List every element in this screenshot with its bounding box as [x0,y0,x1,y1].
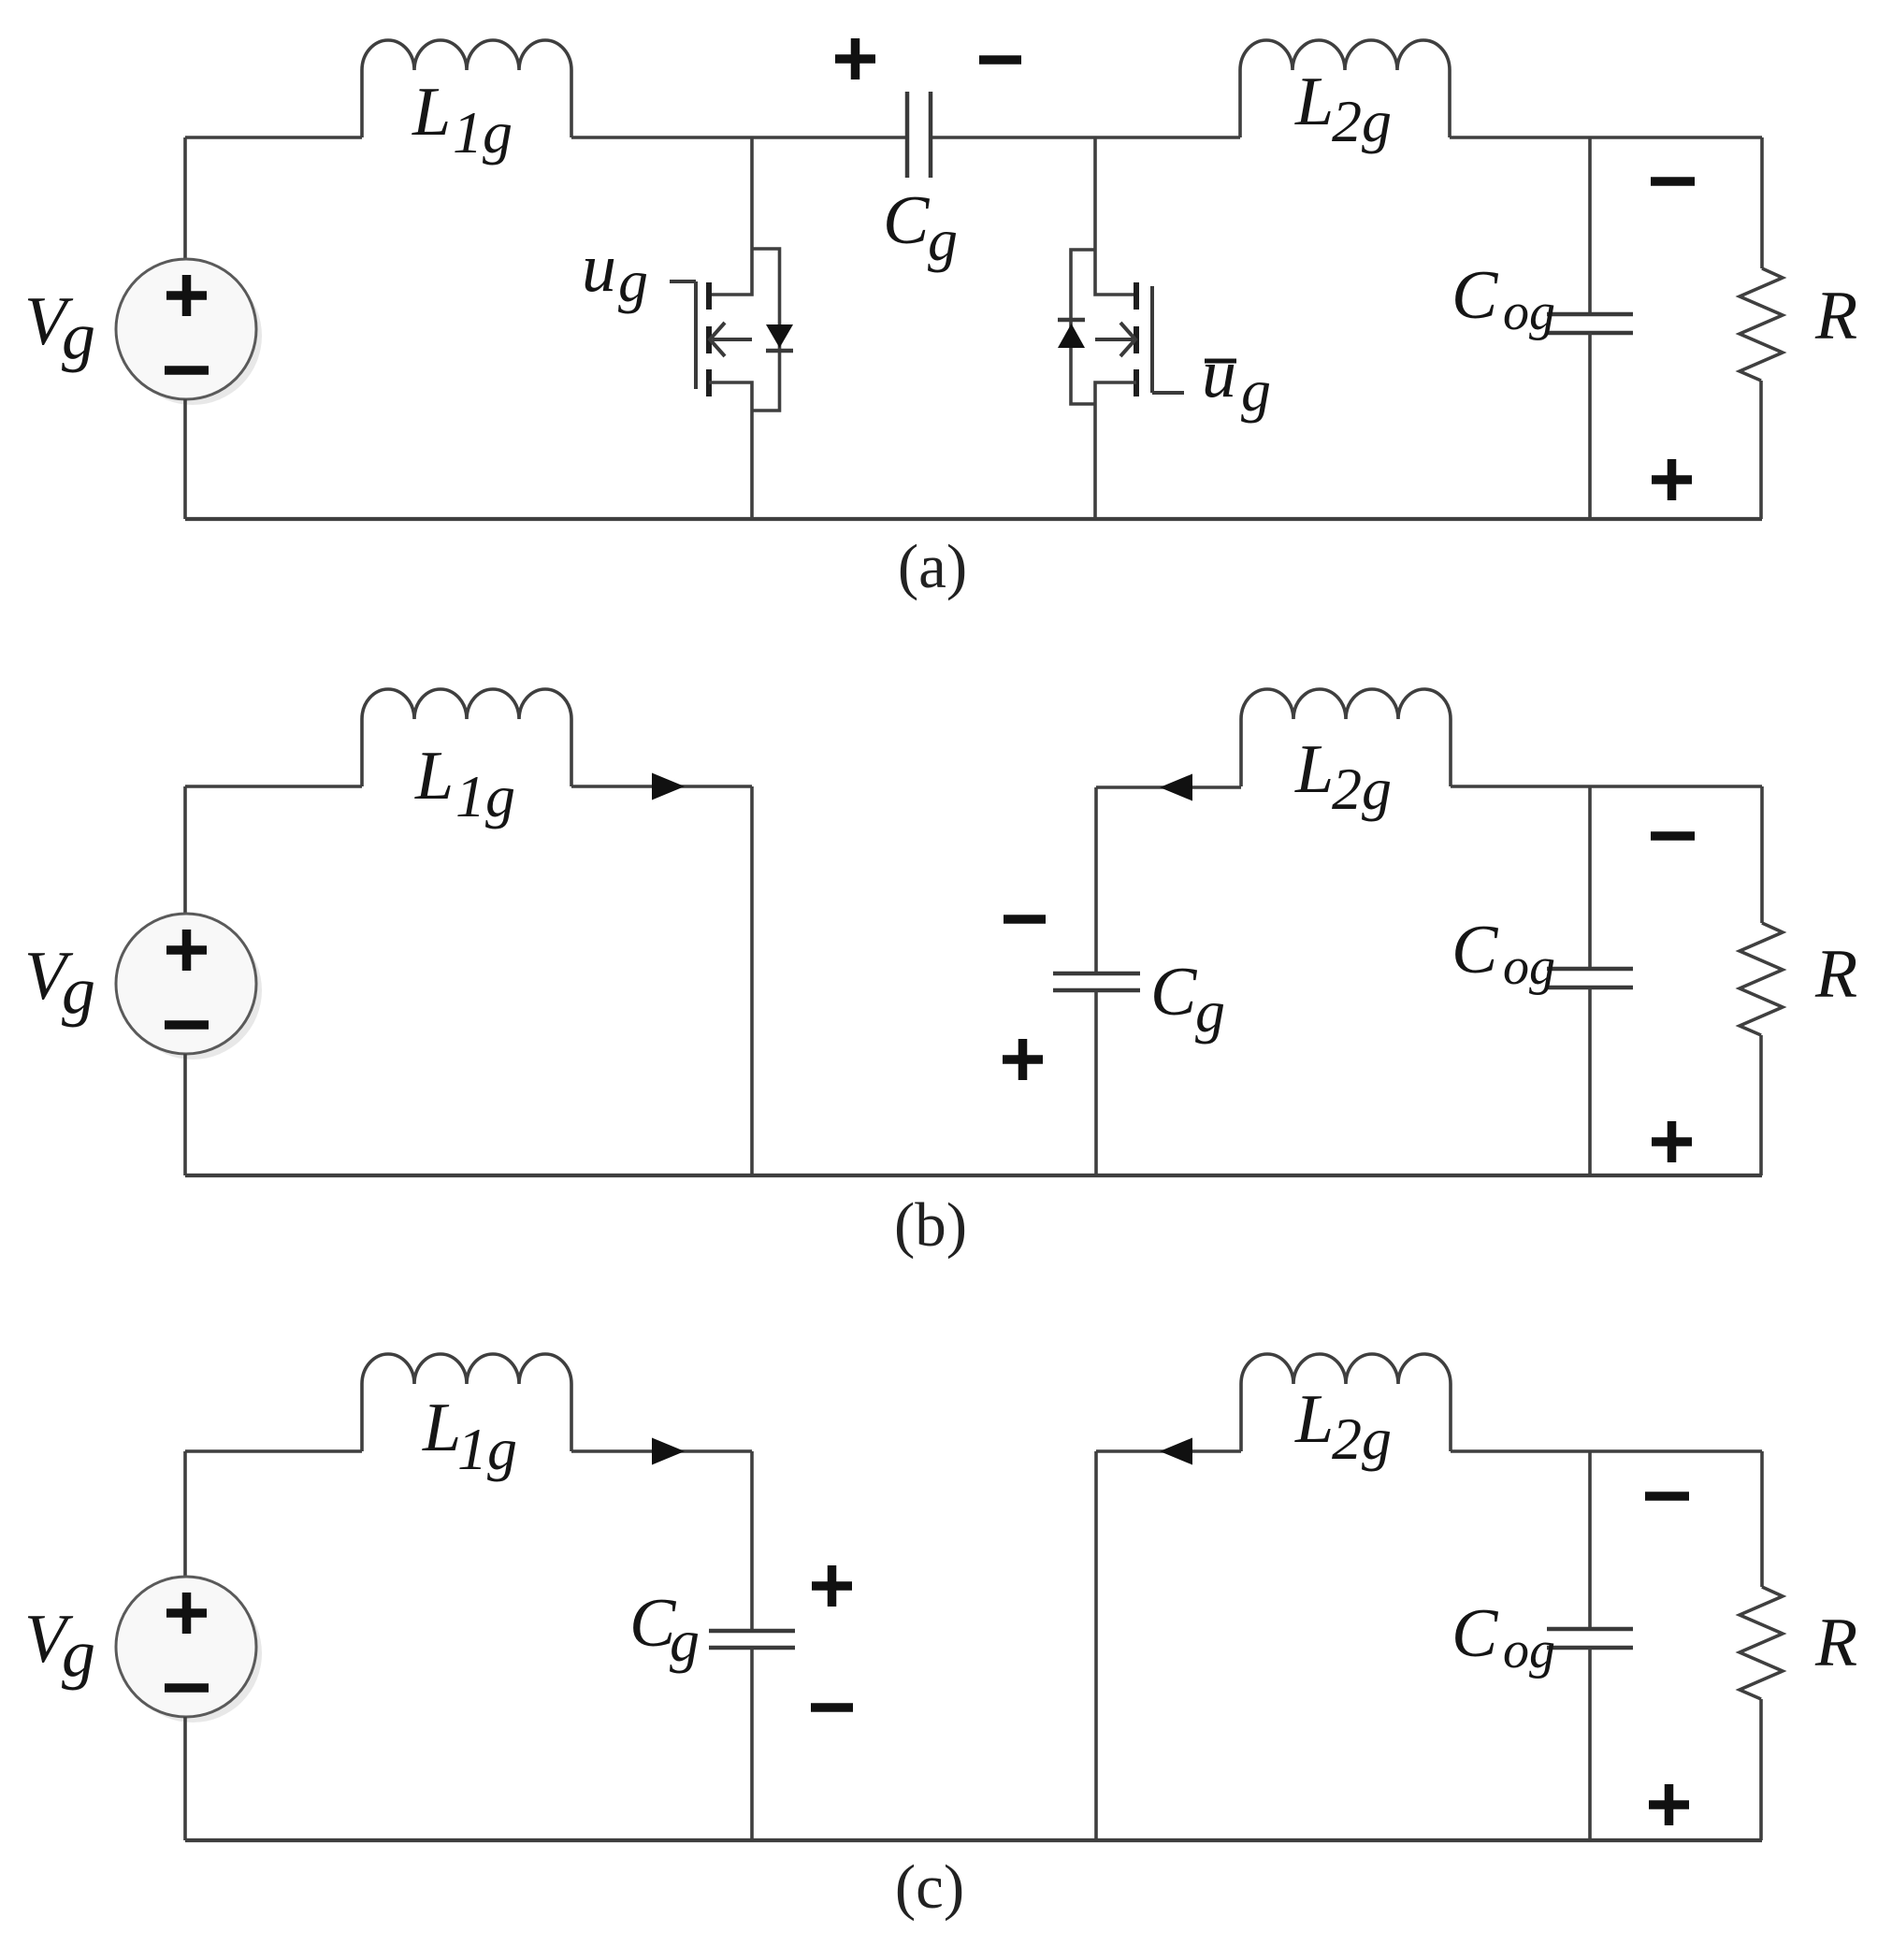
wire: left branch upper [183,1451,187,1578]
gate lead Q1 [670,280,696,283]
wire: Cog lower [1588,987,1592,1175]
wire: R lower [1759,1035,1763,1175]
inductor L2g [1240,40,1450,137]
label L2g [1294,1381,1392,1472]
wire: Cg upper [1094,787,1098,973]
wire: left branch lower [183,399,187,519]
svg-text:L: L [412,74,451,151]
inductor L2g [1241,689,1451,786]
label L2g [1294,64,1392,154]
channel bars Q2 [1134,282,1139,310]
svg-text:C: C [883,182,931,259]
wire: top rail, Cg to L2g [932,136,1240,139]
capacitor Cog [1547,967,1633,972]
inductor L1g [362,40,571,137]
wire: top rail, L1g to Cg [571,136,905,139]
current arrow i2 [1160,1438,1192,1465]
wire: source lead Q2 [1095,382,1136,519]
svg-text:g: g [1195,978,1225,1045]
transistor Q2 (MOSFET ug-bar) [1058,137,1271,519]
channel bars Q1 [706,282,712,310]
svg-text:L: L [1294,731,1334,808]
capacitor Cg [907,92,931,178]
label ug-bar [1202,336,1271,424]
minus label of Cg [811,1703,853,1712]
wire: Cog upper [1588,137,1592,314]
svg-text:g: g [62,1616,95,1691]
wire: L2g branch top horizontal with arrow [1096,1449,1241,1453]
label Vg [24,283,95,373]
plus label of output [1652,459,1692,500]
plus label of Cg [812,1565,852,1607]
svg-text:g: g [670,1607,700,1674]
label L1g [412,74,513,166]
svg-text:g: g [928,207,958,273]
svg-text:1g: 1g [453,99,513,166]
plus label of output [1649,1784,1689,1825]
minus label of Cg [979,55,1021,65]
wire: top rail with current arrow [571,1449,752,1453]
body diode D2 [1058,320,1085,348]
plus label of output [1652,1121,1692,1162]
wire: left branch upper [183,137,187,260]
substrate line with arrow Q1 [713,338,752,341]
svg-text:R: R [1814,1605,1857,1681]
capacitor Cog branch [1451,786,1633,1175]
wire: R upper [1760,1451,1764,1587]
capacitor Cog branch [1451,137,1633,519]
wire: Cog upper [1588,786,1592,969]
gate bar Q1 [694,281,698,389]
transistor Q1 (MOSFET ug) [582,137,793,519]
svg-text:C: C [1150,954,1198,1030]
svg-text:L: L [1294,1381,1334,1458]
wire: Cog upper [1588,1451,1592,1629]
wire: bottom rail [185,1838,1762,1842]
inductor L1g [362,689,571,786]
body diode D1 [766,324,793,351]
minus label of output [1651,831,1695,841]
wire: Cog lower [1588,333,1592,519]
wire: Cg lower [1094,990,1098,1175]
voltage source Vg [116,259,262,405]
resistor R [1740,1451,1857,1840]
svg-text:2g: 2g [1332,756,1392,822]
svg-text:(b): (b) [894,1190,967,1260]
voltage source Vg [116,914,262,1059]
svg-text:L: L [414,738,454,814]
wire: R upper [1760,786,1764,923]
gate bar Q2 [1150,286,1154,393]
wire: top rail left segment [185,1449,362,1453]
svg-text:2g: 2g [1332,1405,1392,1472]
plus label of Cg [1003,1039,1043,1080]
svg-text:(a): (a) [898,532,967,601]
svg-text:1g: 1g [457,1416,517,1482]
capacitor Cg branch [1003,774,1241,1176]
resistor R [1740,137,1857,519]
svg-text:R: R [1814,936,1857,1013]
wire: L2g branch vertical [1094,1451,1098,1840]
capacitor Cg [709,1629,795,1634]
svg-text:og: og [1503,1621,1555,1679]
label Cg [883,182,958,273]
minus label of output [1651,177,1695,186]
wire: drain lead Q1 [709,137,752,295]
svg-text:og: og [1503,283,1555,341]
wire: drain lead Q2 [1095,137,1136,295]
wire: Cog lower [1588,1648,1592,1840]
wire: source lead Q1 [709,382,752,519]
svg-text:g: g [62,953,95,1028]
svg-text:g: g [62,298,95,373]
wire: top rail left segment [185,136,362,139]
minus label of Cg [1004,915,1046,924]
wire: switch-node vertical [750,786,754,1175]
wire: top rail left segment [185,785,362,788]
capacitor Cog [1547,1627,1633,1632]
wire: R lower [1759,381,1763,519]
current arrow i2 [1160,774,1192,801]
wire: bottom rail [185,1174,1762,1177]
wire: left branch lower [183,1054,187,1175]
svg-text:C: C [1451,257,1499,334]
capacitor Cog branch [1451,1451,1633,1840]
label L2g [1294,731,1392,822]
wire: left branch lower [183,1717,187,1840]
resistor zigzag R [1740,268,1783,381]
label Vg [24,938,95,1028]
capacitor Cg branch [629,1451,853,1840]
current arrow i1 [652,1438,685,1465]
resistor R [1740,786,1857,1175]
svg-text:g: g [1241,357,1271,424]
plus label of Cg [835,38,875,79]
svg-text:u: u [582,230,616,307]
svg-text:1g: 1g [455,763,515,829]
inductor L1g [362,1354,571,1451]
wire: bottom rail [185,517,1762,521]
wire: top rail with current arrow [571,785,752,788]
wire: top rail right segment [1451,785,1762,788]
gate lead Q2 [1152,391,1184,395]
label Vg [24,1601,95,1691]
capacitor Cog [1547,312,1633,317]
svg-text:C: C [1451,912,1499,988]
svg-text:u: u [1202,336,1236,412]
wire: Cg branch top horizontal with arrow [1096,785,1241,789]
resistor zigzag R [1740,923,1783,1035]
minus label of output [1645,1492,1689,1501]
voltage source Vg [116,1577,262,1722]
wire: top rail right segment [1451,1449,1762,1453]
svg-text:L: L [422,1390,461,1466]
wire: top rail right segment [1450,136,1762,139]
svg-text:R: R [1814,278,1857,354]
wire: R upper [1760,137,1764,268]
svg-text:C: C [1451,1595,1499,1672]
wire: Cg lower [750,1648,754,1840]
current arrow i1 [652,773,685,800]
inductor L2g [1241,1354,1451,1451]
svg-text:(c): (c) [895,1852,964,1922]
capacitor Cg [1053,972,1140,976]
svg-text:og: og [1503,938,1555,996]
wire: left branch upper [183,786,187,915]
resistor zigzag R [1740,1587,1783,1699]
label L1g [422,1390,517,1482]
label ug [582,230,648,314]
svg-text:2g: 2g [1332,88,1392,154]
body diode branch wire Q2 [1071,250,1095,404]
wire: Cg upper [750,1451,754,1631]
svg-text:L: L [1294,64,1334,140]
body diode branch wire Q1 [752,249,780,411]
substrate line with arrow Q2 [1095,338,1133,341]
wire: R lower [1759,1699,1763,1840]
label L1g [414,738,515,829]
svg-text:g: g [618,248,648,314]
